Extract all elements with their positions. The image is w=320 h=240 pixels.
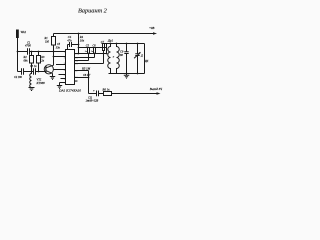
svg-text:+: + xyxy=(93,89,95,93)
node R3 bottom xyxy=(38,71,40,73)
svg-text:R6 1к: R6 1к xyxy=(102,88,111,92)
wire pin y77.5 xyxy=(75,77,89,79)
wire tank top xyxy=(102,43,145,45)
ground IC xyxy=(57,86,62,89)
ground L1 xyxy=(29,88,35,91)
transformer winding II xyxy=(117,44,120,74)
svg-text:С8 4,7: С8 4,7 xyxy=(83,74,91,77)
wire W2 xyxy=(75,53,107,55)
svg-text:47н: 47н xyxy=(67,38,72,42)
svg-text:WA1: WA1 xyxy=(21,30,27,34)
svg-text:С3 1н: С3 1н xyxy=(30,65,37,68)
capacitor C6 xyxy=(94,48,96,54)
svg-text:1мкФ×12В: 1мкФ×12В xyxy=(86,100,99,103)
svg-text:II: II xyxy=(112,56,115,59)
ground VT1 xyxy=(50,77,55,80)
IC DA1 box xyxy=(66,50,75,85)
svg-text:Д: Д xyxy=(140,54,143,57)
IC top pin xyxy=(67,45,69,50)
svg-text:4700: 4700 xyxy=(25,44,31,48)
capacitor C11 xyxy=(97,91,99,97)
svg-text:68к: 68к xyxy=(24,59,29,62)
resistor R1 xyxy=(53,34,55,37)
svg-text:Выход ЗЧ: Выход ЗЧ xyxy=(150,87,163,91)
wire W1 xyxy=(79,47,107,49)
wire input row xyxy=(18,71,22,73)
wire tank bottom xyxy=(109,73,145,75)
capacitor C4 xyxy=(68,42,79,47)
capacitor C7 xyxy=(103,44,105,51)
wire tank right xyxy=(144,44,146,74)
transformer winding I xyxy=(108,44,111,74)
pin numbers xyxy=(64,50,79,84)
emitter VT1 xyxy=(46,71,53,77)
wire return y60.5 xyxy=(75,54,89,61)
wire pin y81 xyxy=(75,80,78,82)
node L1 top xyxy=(31,71,33,73)
wire pin ground xyxy=(60,83,66,86)
wire x78 vertical xyxy=(78,34,80,54)
ground tank xyxy=(124,74,129,79)
arrow output xyxy=(157,92,161,94)
node rail x78 xyxy=(78,33,80,35)
resistor R3 xyxy=(38,52,40,56)
resistor R2 xyxy=(31,52,33,56)
capacitor C1 xyxy=(28,48,30,55)
wire pin y69.5 xyxy=(53,69,65,71)
collector VT1 xyxy=(46,52,54,68)
svg-text:С2 180: С2 180 xyxy=(14,76,22,79)
capacitor C9 xyxy=(124,44,128,74)
wire pin y64.5 xyxy=(56,64,66,66)
capacitor C5 xyxy=(88,48,90,54)
svg-text:КТ368: КТ368 xyxy=(36,81,46,85)
wire antenna down xyxy=(17,38,19,72)
wire collector pin xyxy=(54,56,66,58)
arrow +9V xyxy=(153,32,157,34)
wire +9V rail xyxy=(54,33,154,35)
wire C1 row xyxy=(18,51,28,53)
capacitor C2 xyxy=(22,68,24,75)
svg-text:Др1: Др1 xyxy=(107,38,114,42)
resistor R6 output xyxy=(104,92,112,96)
node R1 bottom xyxy=(53,51,55,53)
node R3 top xyxy=(38,51,40,53)
svg-text:Вариант 2: Вариант 2 xyxy=(78,8,108,15)
inductor L1 xyxy=(30,72,32,88)
svg-text:10к: 10к xyxy=(80,38,85,42)
antenna WA1 xyxy=(16,30,19,39)
wire pin y78.5 xyxy=(61,78,66,80)
node antenna C1 xyxy=(17,51,19,53)
wire pin y74.5 xyxy=(59,74,66,76)
wire return y63.5 xyxy=(75,51,104,64)
wire to output xyxy=(112,93,158,95)
wire x106.5 vertical xyxy=(106,44,108,54)
svg-text:+9В: +9В xyxy=(149,26,155,30)
transistor VT1 xyxy=(44,65,53,74)
node R2 top xyxy=(31,51,33,53)
svg-text:DA1 К174ХА10: DA1 К174ХА10 xyxy=(58,89,81,93)
varicap arrow xyxy=(134,53,140,59)
svg-text:33н: 33н xyxy=(56,46,61,49)
wire output row xyxy=(89,93,97,95)
wire C1 to IC xyxy=(30,51,66,53)
capacitor C3 xyxy=(34,68,36,75)
wire return y57.5 xyxy=(75,54,95,58)
varicap xyxy=(135,44,139,74)
wire pin y70.5 xyxy=(75,71,89,94)
